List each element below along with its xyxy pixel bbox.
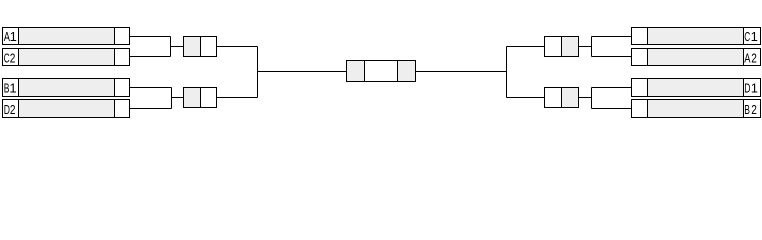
svg-text:B2: B2 [744,102,757,117]
svg-text:C1: C1 [744,29,758,44]
match box M2 [184,88,217,108]
wire M1 out [217,46,258,48]
seed row A1 [3,28,130,45]
match box M4 [545,88,579,108]
wire D2 out [130,108,172,110]
svg-text:D1: D1 [744,80,758,95]
svg-text:A2: A2 [744,51,757,66]
final match box F [347,61,416,82]
junction B1/D2 [171,88,173,109]
seed row C1 [632,28,761,45]
wire M4 out [579,97,592,99]
wire D1 in [592,87,632,89]
wire final to right junction [416,71,507,73]
match box M1 [184,37,217,57]
wire B2 in [592,108,632,110]
seed row D1 [632,79,761,97]
wire to match box M1 [171,46,184,48]
wire to final box [258,71,347,73]
seed row B2 [632,100,761,118]
wire M2 out [217,97,258,99]
seed row D2 [3,100,130,118]
wire to match box M4 [507,97,545,99]
wire B1 out [130,87,172,89]
wire A2 in [592,56,632,58]
seed row A2 [632,49,761,66]
svg-text:B1: B1 [4,81,17,96]
wire C1 in [592,36,632,38]
wire A1 out [130,36,171,38]
wire M3 out [579,46,592,48]
seed row B1 [3,79,130,97]
svg-text:C2: C2 [4,51,16,66]
svg-text:D2: D2 [4,102,16,117]
junction left semifinals [257,47,259,98]
junction D1/B2 [591,88,593,109]
seed row C2 [3,49,130,66]
match box M3 [545,37,579,57]
junction A1/C2 [170,37,172,57]
svg-text:A1: A1 [4,29,17,44]
wire to match box M3 [507,46,545,48]
wire C2 out [130,56,171,58]
junction C1/A2 [591,37,593,57]
junction right semifinals [506,47,508,98]
wire to match box M2 [172,97,184,99]
